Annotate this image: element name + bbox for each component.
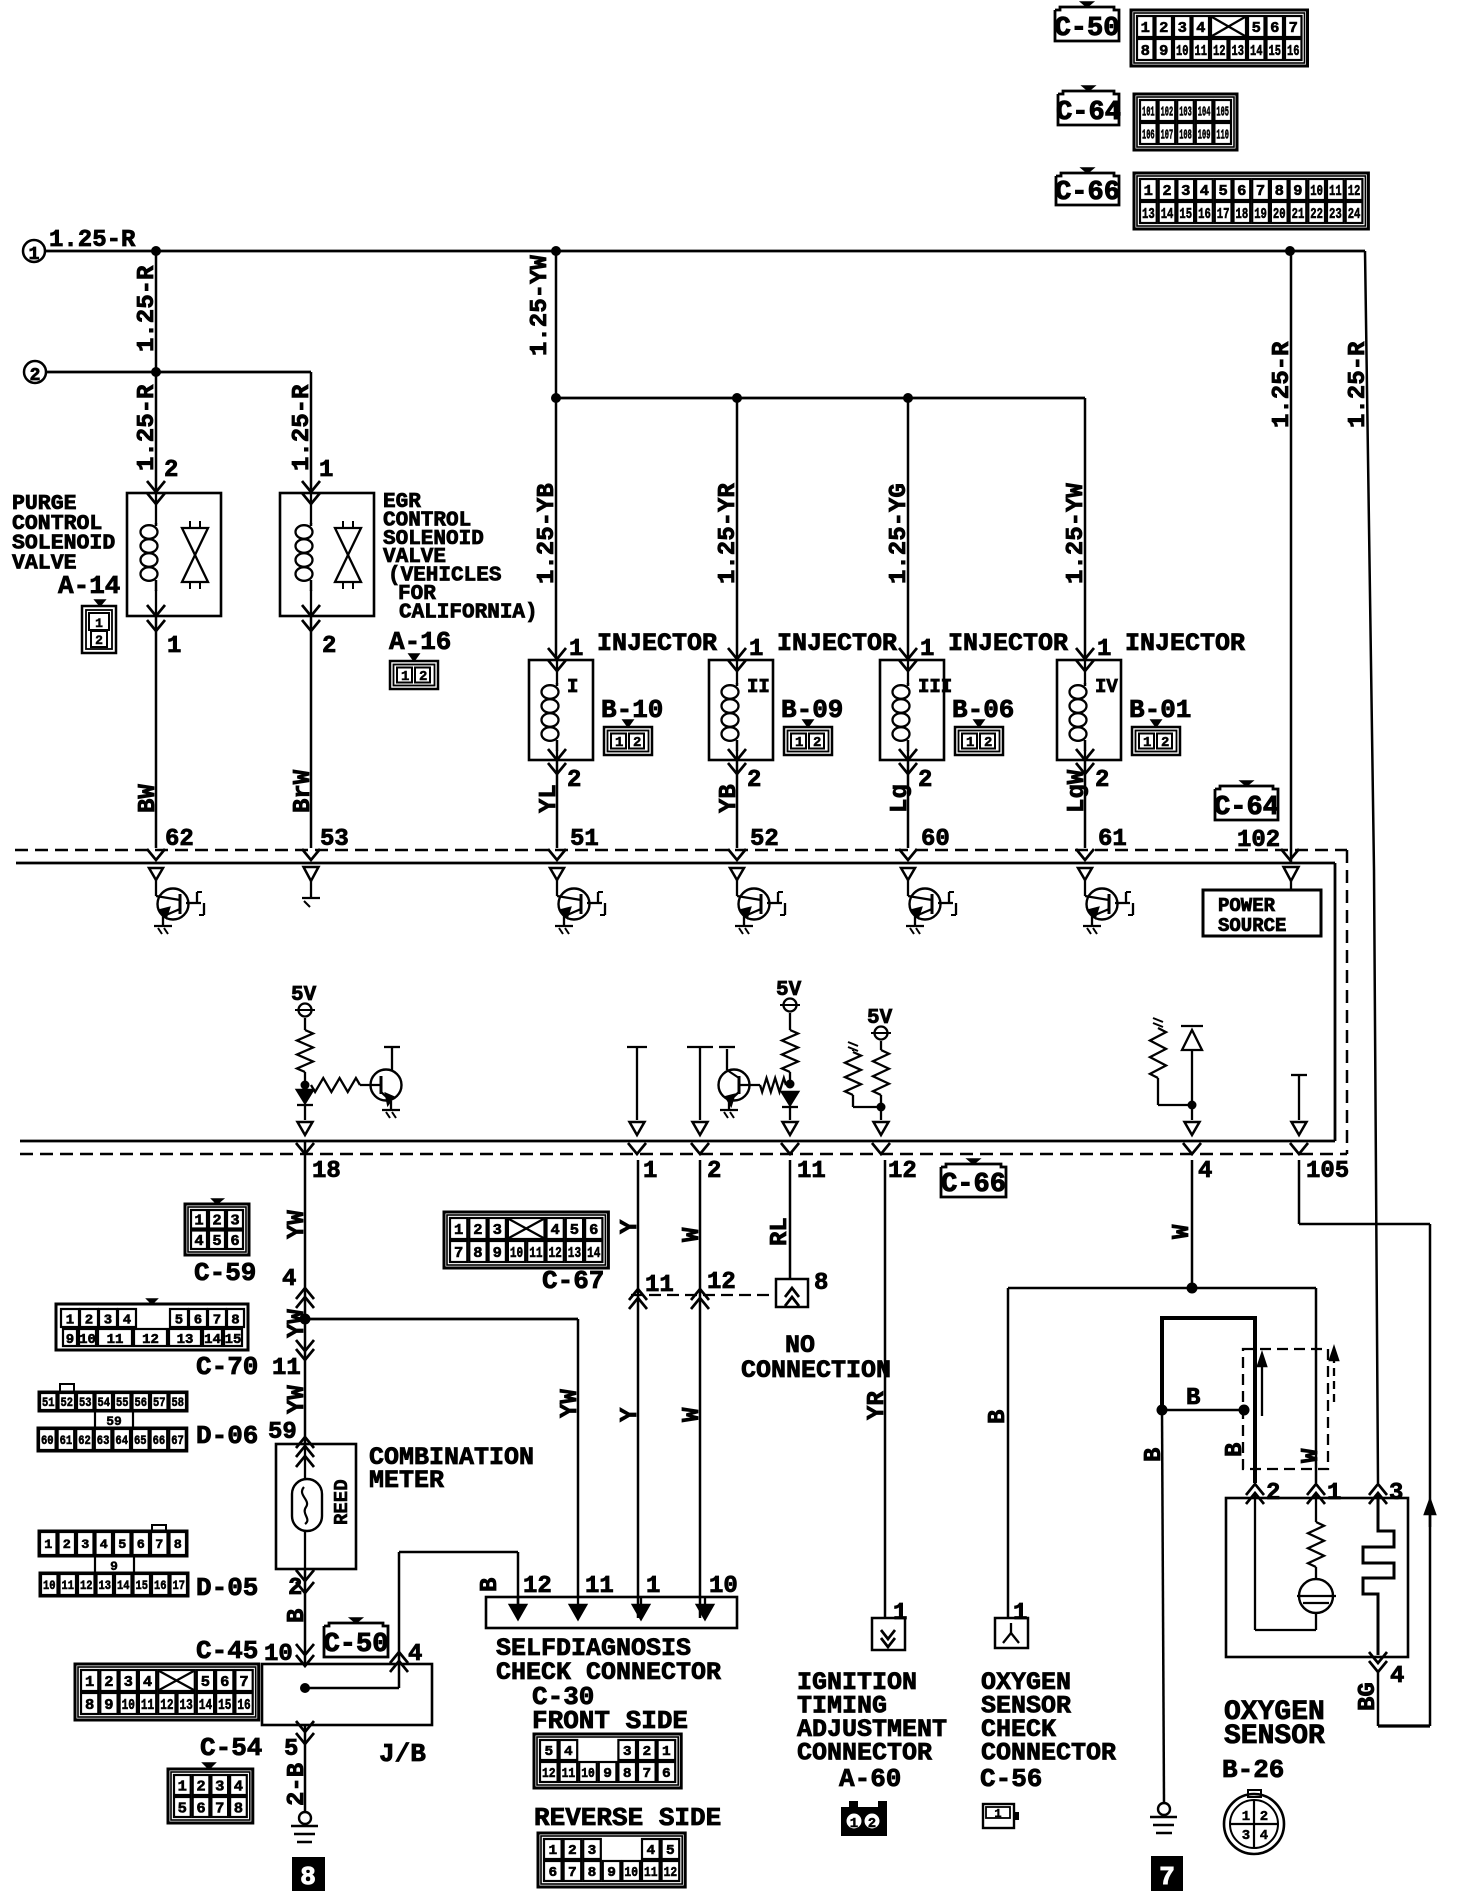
svg-text:4: 4 [408,1641,422,1668]
svg-text:1: 1 [1097,636,1111,663]
svg-text:4: 4 [1260,1828,1268,1844]
svg-text:2: 2 [707,1158,721,1185]
svg-text:6: 6 [220,1674,229,1691]
svg-text:3: 3 [81,1537,89,1552]
svg-text:3: 3 [124,1674,133,1691]
svg-text:5: 5 [570,1222,579,1239]
svg-text:2: 2 [1260,1809,1268,1825]
svg-text:15: 15 [136,1578,149,1593]
svg-text:3: 3 [1242,1828,1250,1844]
svg-text:53: 53 [320,826,349,853]
svg-text:3: 3 [493,1222,502,1239]
svg-text:CONNECTION: CONNECTION [741,1356,891,1385]
svg-text:2: 2 [984,735,992,751]
svg-text:12: 12 [80,1578,93,1593]
svg-text:8: 8 [300,1862,316,1892]
svg-text:5: 5 [178,1800,187,1817]
svg-text:2: 2 [164,457,178,484]
svg-text:C-45: C-45 [196,1636,258,1666]
svg-text:C-54: C-54 [200,1733,262,1763]
svg-text:11: 11 [645,1272,674,1299]
svg-text:12: 12 [1213,43,1226,60]
svg-text:1: 1 [920,636,934,663]
svg-text:16: 16 [154,1578,167,1593]
svg-text:C-50: C-50 [1055,14,1120,44]
svg-text:2: 2 [813,735,821,751]
svg-text:1: 1 [569,636,583,663]
svg-text:1: 1 [85,1674,94,1691]
svg-text:2: 2 [918,767,932,794]
svg-text:2: 2 [212,1213,221,1230]
svg-text:W: W [1169,1224,1196,1239]
svg-text:C-66: C-66 [941,1170,1006,1200]
svg-text:61: 61 [60,1433,73,1448]
svg-text:6: 6 [230,1233,239,1250]
svg-text:4: 4 [282,1266,296,1293]
svg-text:2: 2 [322,633,336,660]
svg-text:C-64: C-64 [1214,793,1279,823]
svg-text:16: 16 [1198,206,1211,223]
svg-text:IV: IV [1095,676,1118,698]
svg-text:2: 2 [567,767,581,794]
svg-text:4: 4 [564,1744,573,1760]
svg-text:14: 14 [117,1578,130,1593]
svg-text:64: 64 [115,1433,128,1448]
svg-text:5: 5 [118,1537,126,1552]
svg-text:109: 109 [1198,128,1211,144]
svg-text:9: 9 [1159,43,1168,60]
svg-text:4: 4 [234,1778,243,1795]
svg-text:INJECTOR: INJECTOR [777,629,897,658]
svg-text:13: 13 [180,1697,193,1714]
svg-text:15: 15 [225,1332,242,1348]
svg-text:7: 7 [1159,1862,1175,1892]
svg-text:10: 10 [1176,43,1189,60]
svg-text:1.25-R: 1.25-R [1345,341,1372,428]
svg-text:11: 11 [272,1355,301,1382]
svg-text:1.25-R: 1.25-R [134,265,161,352]
svg-text:7: 7 [568,1865,577,1881]
svg-text:YB: YB [716,784,743,813]
svg-text:C-66: C-66 [1055,178,1120,208]
svg-text:11: 11 [585,1573,614,1600]
svg-text:1: 1 [994,1807,1001,1821]
svg-text:14: 14 [587,1245,600,1262]
svg-text:1: 1 [95,616,103,631]
svg-text:4: 4 [1200,183,1209,200]
svg-text:C-64: C-64 [1056,98,1121,128]
svg-text:8: 8 [85,1697,94,1714]
svg-text:1: 1 [401,669,409,685]
svg-text:10: 10 [624,1865,638,1881]
svg-text:55: 55 [116,1395,129,1410]
svg-text:12: 12 [1348,183,1361,200]
svg-text:2: 2 [868,1816,876,1832]
svg-text:5: 5 [175,1313,183,1329]
svg-text:12: 12 [160,1697,173,1714]
svg-text:Y: Y [617,1407,644,1422]
svg-text:12: 12 [888,1158,917,1185]
svg-text:5: 5 [1252,20,1261,37]
svg-text:11: 11 [529,1245,542,1262]
svg-text:CHECK CONNECTOR: CHECK CONNECTOR [496,1658,721,1687]
svg-text:17: 17 [1217,206,1230,223]
svg-text:BrW: BrW [290,769,317,813]
svg-text:1.25-YW: 1.25-YW [527,255,554,356]
svg-text:9: 9 [603,1766,612,1782]
svg-text:62: 62 [78,1433,91,1448]
svg-text:5: 5 [1219,183,1228,200]
svg-text:4: 4 [143,1674,152,1691]
svg-text:11: 11 [562,1766,576,1782]
svg-text:56: 56 [135,1395,148,1410]
svg-text:1: 1 [646,1573,660,1600]
svg-text:5: 5 [544,1744,553,1760]
svg-text:8: 8 [231,1313,239,1329]
svg-text:6: 6 [589,1222,598,1239]
svg-text:3: 3 [1181,183,1190,200]
svg-text:POWER: POWER [1218,895,1276,917]
svg-text:1.25-YG: 1.25-YG [886,483,913,584]
svg-text:B: B [1186,1385,1200,1412]
svg-text:8: 8 [588,1865,597,1881]
svg-text:D-05: D-05 [196,1573,258,1603]
svg-text:1: 1 [29,245,40,265]
svg-text:2: 2 [473,1222,482,1239]
svg-text:15: 15 [218,1697,231,1714]
svg-text:8: 8 [1275,183,1284,200]
svg-text:7: 7 [454,1245,463,1262]
svg-text:1: 1 [1141,20,1150,37]
svg-text:3: 3 [588,1843,597,1859]
svg-text:2: 2 [196,1778,205,1795]
svg-text:2: 2 [1162,183,1171,200]
svg-text:SOURCE: SOURCE [1218,915,1286,937]
svg-text:6: 6 [194,1313,202,1329]
svg-text:3: 3 [1389,1480,1403,1507]
svg-text:16: 16 [1287,43,1300,60]
svg-text:8: 8 [814,1270,828,1297]
svg-text:54: 54 [98,1395,111,1410]
svg-text:5: 5 [284,1736,298,1763]
svg-text:J/B: J/B [379,1739,426,1769]
svg-text:11: 11 [141,1697,154,1714]
svg-text:4: 4 [1198,1158,1212,1185]
svg-text:YW: YW [284,1385,311,1414]
svg-text:YW: YW [557,1389,584,1418]
svg-text:6: 6 [137,1537,145,1552]
svg-text:9: 9 [607,1865,616,1881]
svg-text:C-56: C-56 [980,1764,1042,1794]
svg-text:III: III [918,676,952,698]
svg-text:18: 18 [312,1158,341,1185]
svg-text:B: B [1141,1448,1168,1462]
svg-text:1.25-R: 1.25-R [1269,341,1296,428]
svg-text:12: 12 [523,1573,552,1600]
svg-text:13: 13 [177,1332,194,1348]
svg-text:60: 60 [41,1433,54,1448]
svg-text:5: 5 [666,1843,675,1859]
svg-text:2: 2 [747,767,761,794]
svg-text:1: 1 [1013,1600,1027,1627]
svg-text:1: 1 [548,1843,557,1859]
svg-text:C-59: C-59 [194,1258,256,1288]
svg-text:1: 1 [615,735,623,751]
svg-text:10: 10 [122,1697,135,1714]
svg-text:108: 108 [1179,128,1192,144]
svg-text:7: 7 [213,1313,221,1329]
svg-text:7: 7 [1256,183,1265,200]
svg-text:1: 1 [662,1744,671,1760]
svg-text:11: 11 [1195,43,1208,60]
svg-text:1: 1 [454,1222,463,1239]
svg-text:11: 11 [1329,183,1342,200]
svg-text:REVERSE SIDE: REVERSE SIDE [534,1803,721,1833]
svg-text:SENSOR: SENSOR [1224,1721,1325,1752]
svg-text:REED: REED [331,1479,353,1525]
svg-text:11: 11 [62,1578,75,1593]
svg-text:23: 23 [1329,206,1342,223]
svg-text:C-50: C-50 [324,1630,389,1660]
svg-text:63: 63 [97,1433,110,1448]
svg-text:1: 1 [850,1816,858,1832]
svg-text:4: 4 [123,1313,131,1329]
svg-text:17: 17 [173,1578,186,1593]
svg-text:14: 14 [204,1332,221,1348]
svg-text:10: 10 [581,1766,595,1782]
svg-text:4: 4 [100,1537,108,1552]
svg-text:20: 20 [1273,206,1286,223]
svg-text:67: 67 [171,1433,184,1448]
svg-text:15: 15 [1179,206,1192,223]
svg-text:YW: YW [284,1309,311,1338]
svg-text:6: 6 [1270,20,1279,37]
svg-text:24: 24 [1348,206,1361,223]
svg-text:2: 2 [1266,1480,1280,1507]
svg-text:105: 105 [1216,105,1229,121]
svg-text:B: B [477,1578,504,1592]
svg-text:1: 1 [167,633,181,660]
svg-text:5: 5 [201,1674,210,1691]
svg-text:B: B [985,1410,1012,1424]
svg-text:14: 14 [1250,43,1263,60]
svg-text:2: 2 [95,633,103,648]
svg-text:4: 4 [551,1222,560,1239]
svg-text:9: 9 [1293,183,1302,200]
svg-text:102: 102 [1161,105,1174,121]
svg-text:59: 59 [268,1419,297,1446]
svg-text:1: 1 [178,1778,187,1795]
svg-text:2: 2 [633,735,641,751]
svg-text:9: 9 [104,1697,113,1714]
svg-text:YR: YR [864,1391,891,1420]
svg-text:12: 12 [542,1766,556,1782]
svg-text:2: 2 [1095,767,1109,794]
svg-text:11: 11 [644,1865,658,1881]
svg-text:3: 3 [230,1213,239,1230]
svg-text:7: 7 [239,1674,248,1691]
svg-text:A-14: A-14 [58,571,120,601]
svg-text:C-70: C-70 [196,1352,258,1382]
svg-text:10: 10 [79,1332,96,1348]
svg-text:2: 2 [568,1843,577,1859]
svg-text:I: I [567,676,578,698]
svg-text:19: 19 [1254,206,1267,223]
svg-text:1: 1 [643,1158,657,1185]
svg-text:53: 53 [79,1395,92,1410]
svg-text:22: 22 [1310,206,1323,223]
svg-text:57: 57 [153,1395,166,1410]
svg-text:10: 10 [510,1245,523,1262]
svg-text:10: 10 [709,1573,738,1600]
svg-text:A-60: A-60 [839,1764,901,1794]
svg-text:10: 10 [43,1578,56,1593]
svg-text:1.25-R: 1.25-R [289,384,316,471]
svg-text:21: 21 [1292,206,1305,223]
svg-text:1: 1 [319,457,333,484]
svg-text:51: 51 [42,1395,55,1410]
svg-text:B: B [1222,1443,1249,1457]
svg-text:4: 4 [1390,1663,1404,1690]
svg-text:1: 1 [795,735,803,751]
svg-text:BG: BG [1355,1682,1382,1711]
svg-text:106: 106 [1142,128,1155,144]
svg-text:1.25-YR: 1.25-YR [715,483,742,584]
svg-text:15: 15 [1269,43,1282,60]
svg-text:8: 8 [1141,43,1150,60]
svg-text:INJECTOR: INJECTOR [948,629,1068,658]
svg-text:13: 13 [1232,43,1245,60]
svg-text:8: 8 [234,1800,243,1817]
svg-text:14: 14 [1161,206,1174,223]
svg-text:13: 13 [568,1245,581,1262]
svg-text:6: 6 [196,1800,205,1817]
svg-text:8: 8 [623,1766,632,1782]
svg-text:1: 1 [1143,735,1151,751]
svg-text:1.25-R: 1.25-R [49,227,136,254]
svg-text:7: 7 [642,1766,651,1782]
svg-text:1: 1 [194,1213,203,1230]
svg-text:103: 103 [1179,105,1192,121]
svg-text:4: 4 [646,1843,655,1859]
svg-text:11: 11 [107,1332,124,1348]
svg-text:INJECTOR: INJECTOR [1125,629,1245,658]
svg-text:12: 12 [142,1332,159,1348]
svg-text:6: 6 [662,1766,671,1782]
svg-text:C-67: C-67 [542,1266,604,1296]
svg-text:107: 107 [1161,128,1174,144]
svg-text:D-06: D-06 [196,1421,258,1451]
svg-text:102: 102 [1237,827,1280,854]
svg-text:W: W [679,1227,706,1242]
svg-text:CALIFORNIA): CALIFORNIA) [399,601,538,624]
svg-text:INJECTOR: INJECTOR [597,629,717,658]
svg-text:105: 105 [1306,1158,1349,1185]
svg-text:52: 52 [61,1395,74,1410]
svg-text:6: 6 [1237,183,1246,200]
svg-text:10: 10 [1310,183,1323,200]
svg-text:A-16: A-16 [389,627,451,657]
svg-text:1: 1 [66,1313,74,1329]
svg-text:1: 1 [1242,1809,1250,1825]
svg-text:II: II [747,676,770,698]
svg-text:W: W [1298,1448,1325,1463]
svg-text:1: 1 [966,735,974,751]
svg-text:12: 12 [664,1865,678,1881]
svg-text:7: 7 [155,1537,163,1552]
svg-text:14: 14 [199,1697,212,1714]
svg-text:RL: RL [767,1217,794,1246]
svg-text:12: 12 [707,1269,736,1296]
svg-text:W: W [679,1407,706,1422]
svg-text:8: 8 [174,1537,182,1552]
svg-text:62: 62 [165,826,194,853]
svg-text:2: 2 [85,1313,93,1329]
svg-text:2: 2 [30,366,41,386]
svg-text:Lg: Lg [887,784,914,813]
svg-text:3: 3 [215,1778,224,1795]
svg-text:1: 1 [1327,1480,1341,1507]
svg-text:B-26: B-26 [1222,1755,1284,1785]
svg-text:2-B: 2-B [284,1763,311,1806]
svg-text:5: 5 [212,1233,221,1250]
svg-text:3: 3 [623,1744,632,1760]
svg-text:18: 18 [1236,206,1249,223]
svg-text:66: 66 [153,1433,166,1448]
svg-text:65: 65 [134,1433,147,1448]
svg-text:2: 2 [288,1575,302,1602]
svg-text:2: 2 [104,1674,113,1691]
svg-text:7: 7 [1289,20,1298,37]
svg-text:104: 104 [1198,105,1211,121]
svg-text:9: 9 [66,1332,74,1348]
svg-text:1: 1 [1144,183,1153,200]
svg-text:B: B [284,1609,311,1623]
svg-text:LgW: LgW [1064,769,1091,813]
svg-text:101: 101 [1142,105,1155,121]
svg-text:12: 12 [549,1245,562,1262]
svg-text:1: 1 [44,1537,52,1552]
svg-text:13: 13 [1142,206,1155,223]
svg-text:1.25-YW: 1.25-YW [1063,483,1090,584]
svg-text:2: 2 [63,1537,71,1552]
svg-text:1: 1 [749,636,763,663]
svg-text:8: 8 [473,1245,482,1262]
svg-text:Y: Y [617,1219,644,1234]
svg-text:9: 9 [493,1245,502,1262]
svg-text:11: 11 [797,1158,826,1185]
svg-text:16: 16 [237,1697,250,1714]
svg-text:4: 4 [1196,20,1205,37]
svg-text:2: 2 [642,1744,651,1760]
svg-text:3: 3 [1178,20,1187,37]
svg-text:13: 13 [99,1578,112,1593]
svg-text:FRONT SIDE: FRONT SIDE [532,1706,688,1736]
svg-text:1.25-YB: 1.25-YB [534,483,561,584]
svg-text:YW: YW [284,1210,311,1239]
svg-text:METER: METER [369,1466,444,1495]
svg-text:2: 2 [419,669,427,685]
svg-text:1.25-R: 1.25-R [134,384,161,471]
svg-text:7: 7 [215,1800,224,1817]
svg-text:110: 110 [1216,128,1229,144]
svg-text:2: 2 [1159,20,1168,37]
svg-text:6: 6 [548,1865,557,1881]
svg-text:BW: BW [135,784,162,813]
svg-text:58: 58 [172,1395,185,1410]
svg-text:4: 4 [194,1233,203,1250]
svg-text:2: 2 [1161,735,1169,751]
